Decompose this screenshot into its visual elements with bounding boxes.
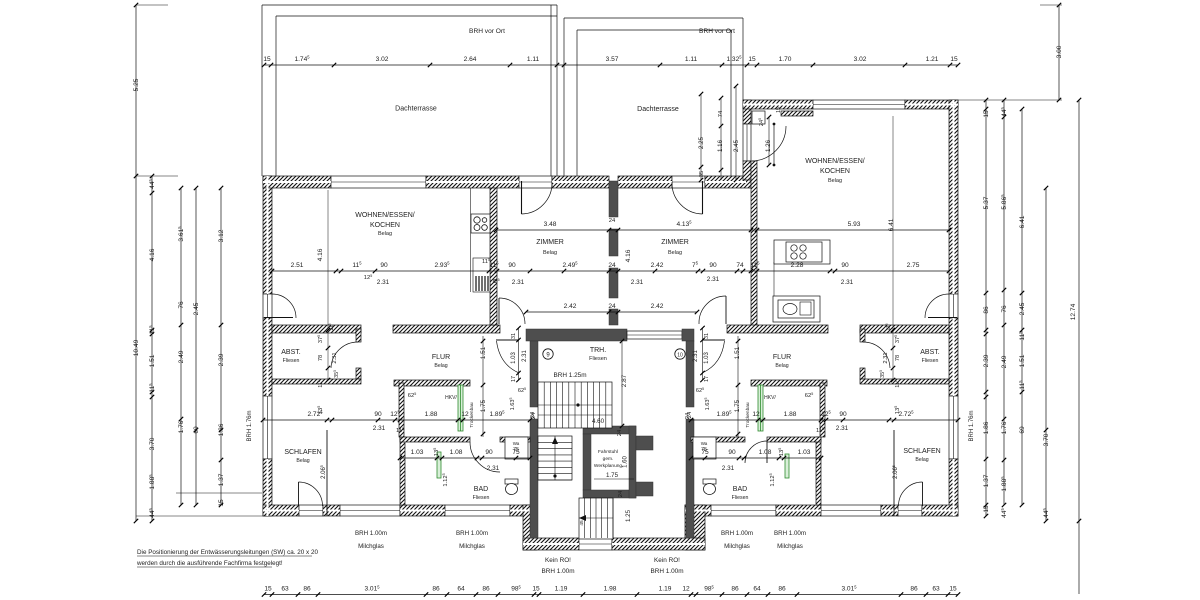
svg-text:2.31: 2.31 <box>512 279 525 286</box>
svg-text:2.75: 2.75 <box>907 262 920 269</box>
svg-text:64: 64 <box>457 586 465 593</box>
door arc BAD right <box>745 441 767 463</box>
Dachterrasse divider wall <box>551 5 564 176</box>
svg-text:FLUR: FLUR <box>432 354 450 361</box>
svg-text:12: 12 <box>461 411 469 418</box>
label Milchglas right 2 <box>774 530 806 550</box>
ABST right-apt west wall upper <box>860 329 865 342</box>
trhdoor vline right <box>700 326 704 382</box>
dimension chain zimmer lower <box>524 303 699 314</box>
svg-text:2.31: 2.31 <box>631 279 644 286</box>
ZIMMER divider wall seg2 <box>609 229 618 256</box>
sub labels 2.31 <box>364 274 854 286</box>
dimension chain flur left <box>261 410 532 423</box>
svg-text:2.31: 2.31 <box>841 279 854 286</box>
exterior wall step vertical upper <box>743 100 751 124</box>
wall corner detail right section <box>752 111 765 124</box>
svg-text:Werkplanung: Werkplanung <box>594 463 623 469</box>
svg-text:2.28: 2.28 <box>791 262 804 269</box>
svg-text:BRH vor Ort: BRH vor Ort <box>469 28 505 35</box>
dimension chain rooms upper <box>494 220 951 233</box>
label Kein RO right <box>650 557 683 575</box>
svg-text:3.12: 3.12 <box>218 229 225 242</box>
window bottom (BAD left, Milchglas) <box>445 505 510 516</box>
vdim right 1 <box>983 98 990 518</box>
dimension chain bad left <box>398 449 532 460</box>
exterior wall top seg1 <box>263 176 331 188</box>
svg-text:KOCHEN: KOCHEN <box>370 222 400 229</box>
svg-text:6.41: 6.41 <box>1019 215 1026 228</box>
ABST right wall upper <box>356 329 361 342</box>
dimension chain main interior <box>270 261 951 274</box>
elevator label <box>594 449 623 469</box>
dimension chain bad right <box>689 449 823 460</box>
svg-text:1.51: 1.51 <box>1019 354 1026 367</box>
flur right sublabels <box>816 406 901 434</box>
svg-text:1.03: 1.03 <box>411 449 424 456</box>
svg-text:90: 90 <box>709 262 717 269</box>
svg-text:BRH 1.00m: BRH 1.00m <box>774 530 806 537</box>
svg-text:BAD: BAD <box>733 486 747 493</box>
label BAD right <box>732 486 749 501</box>
svg-text:1.03: 1.03 <box>704 352 710 364</box>
vdim right 6 overall <box>1070 98 1081 594</box>
exterior wall bottom seg2 <box>400 505 445 516</box>
svg-text:15: 15 <box>218 499 225 507</box>
elevator shaft bottom wall <box>583 490 636 498</box>
svg-text:1.98: 1.98 <box>604 586 617 593</box>
svg-text:2.31: 2.31 <box>883 352 889 363</box>
elevator shaft west wall <box>583 434 591 490</box>
elevator shaft east wall <box>629 426 636 498</box>
washbasin left <box>505 437 528 459</box>
svg-text:Belag: Belag <box>915 457 928 463</box>
svg-text:15: 15 <box>983 505 990 513</box>
ABST dim chain left <box>317 323 340 387</box>
corridor wall left apt seg1 <box>272 325 361 333</box>
note line2 <box>136 560 283 567</box>
ABST right-apt west wall lower <box>860 368 865 379</box>
kitchen sink right <box>778 300 814 318</box>
svg-text:3.00: 3.00 <box>1056 45 1063 58</box>
label FLUR left <box>432 354 450 369</box>
extension line interior left <box>327 190 329 380</box>
heating manifold green left <box>458 385 463 431</box>
svg-text:15: 15 <box>264 586 272 593</box>
svg-text:WOHNEN/ESSEN/: WOHNEN/ESSEN/ <box>355 212 415 219</box>
exterior wall left upper <box>263 176 272 294</box>
svg-text:1.51: 1.51 <box>480 346 487 359</box>
svg-text:2.42: 2.42 <box>564 303 577 310</box>
svg-text:2.87: 2.87 <box>621 374 628 387</box>
svg-text:Belag: Belag <box>775 363 788 369</box>
SCHLAFEN west wall right apt <box>893 430 895 516</box>
svg-text:10.49: 10.49 <box>133 339 140 356</box>
stair flight lower <box>579 498 613 539</box>
WC right <box>703 479 716 495</box>
label ZIMMER right <box>661 239 689 256</box>
interior wall band right section <box>781 111 813 116</box>
svg-text:Belag: Belag <box>828 178 842 184</box>
door arc ABST left <box>331 342 358 368</box>
svg-text:Fliesen: Fliesen <box>283 358 300 364</box>
BAD west wall left apt <box>400 437 405 505</box>
svg-text:2.39: 2.39 <box>218 353 225 366</box>
svg-text:2.49: 2.49 <box>1001 355 1008 368</box>
svg-text:2.45: 2.45 <box>193 302 200 315</box>
dimension chain top <box>262 55 960 68</box>
note line1 <box>137 549 318 556</box>
svg-text:1.03: 1.03 <box>798 449 811 456</box>
dimension chain flur right <box>689 410 960 423</box>
SCHLAFEN east wall left apt <box>326 430 328 516</box>
svg-text:86: 86 <box>910 586 918 593</box>
stairwell east wall lower <box>686 419 694 538</box>
svg-text:15: 15 <box>983 110 990 118</box>
kitchen radiator left <box>473 258 490 292</box>
svg-text:1.86: 1.86 <box>983 421 990 434</box>
svg-text:1.51: 1.51 <box>149 354 156 367</box>
svg-text:2.39: 2.39 <box>983 354 990 367</box>
BAD east wall right apt <box>816 437 821 505</box>
door arc terrace ZIMMER right <box>672 181 703 214</box>
exterior wall top seg4 <box>618 176 672 188</box>
svg-text:4.60: 4.60 <box>592 418 605 425</box>
bad right sublabels <box>722 448 785 487</box>
window bottom (BAD right, Milchglas) <box>711 505 776 516</box>
door arc SCHLAFEN right <box>899 482 923 506</box>
svg-text:12.74: 12.74 <box>1070 303 1077 320</box>
svg-text:1.19: 1.19 <box>555 586 568 593</box>
svg-text:Milchglas: Milchglas <box>777 543 803 550</box>
vdim left 3 <box>177 186 185 507</box>
svg-text:SCHLAFEN: SCHLAFEN <box>903 448 940 455</box>
FLUR partition vertical right <box>820 383 825 437</box>
svg-text:Belag: Belag <box>296 458 309 464</box>
exterior wall right upper <box>949 100 958 294</box>
ABST right wall lower <box>356 368 361 379</box>
exterior wall step vertical lower <box>743 161 751 180</box>
svg-text:24: 24 <box>687 411 693 418</box>
svg-text:76: 76 <box>1001 305 1008 313</box>
window right-section top <box>813 100 905 109</box>
extension line top left <box>136 4 168 6</box>
svg-text:3.70: 3.70 <box>1043 433 1050 446</box>
exterior wall bottom seg4 <box>685 505 711 516</box>
svg-text:Wa: Wa <box>701 441 708 446</box>
svg-text:Fahrstuhl: Fahrstuhl <box>598 449 618 455</box>
svg-text:86: 86 <box>778 586 786 593</box>
stairwell west wall <box>530 341 538 407</box>
window top wall (WOHNEN left) <box>331 176 426 188</box>
svg-text:6.41: 6.41 <box>888 218 895 231</box>
extension line left building top <box>136 175 178 177</box>
svg-text:5.25: 5.25 <box>133 78 140 91</box>
interior vdim trh left <box>509 333 537 419</box>
svg-text:15: 15 <box>950 56 958 63</box>
vdim right 3 <box>1018 107 1026 507</box>
svg-text:1.75: 1.75 <box>480 399 487 412</box>
svg-text:2.49: 2.49 <box>178 350 185 363</box>
vdim right 2 <box>1000 98 1008 518</box>
svg-text:TRH.: TRH. <box>590 347 606 354</box>
svg-text:HKV/: HKV/ <box>445 395 457 401</box>
exterior wall right-section top seg1 <box>743 100 813 109</box>
BAD north wall right apt seg2 <box>691 437 745 442</box>
exterior wall bottom seg6b <box>922 505 958 516</box>
svg-text:1.08: 1.08 <box>450 449 463 456</box>
heating manifold green right <box>758 385 763 431</box>
stair dim 4.60 <box>538 415 612 526</box>
wall core line left wall <box>267 176 269 516</box>
svg-text:86: 86 <box>303 586 311 593</box>
vdim left 5 <box>218 186 225 507</box>
svg-text:78: 78 <box>318 355 324 361</box>
svg-text:Wa: Wa <box>513 441 520 446</box>
BAD north wall right apt seg1 <box>767 437 821 442</box>
terrace door opening right section <box>743 124 751 161</box>
svg-text:45: 45 <box>579 520 585 526</box>
entrance window bottom <box>579 538 612 550</box>
svg-text:4.16: 4.16 <box>149 248 156 261</box>
flur left sublabels <box>317 406 404 434</box>
svg-text:86: 86 <box>432 586 440 593</box>
svg-text:Trockenbau: Trockenbau <box>469 402 475 427</box>
svg-text:2.31: 2.31 <box>332 352 338 363</box>
svg-text:24: 24 <box>530 411 536 418</box>
Dachterrasse right outline outer <box>564 18 743 100</box>
svg-text:35: 35 <box>699 171 705 177</box>
svg-text:75: 75 <box>701 449 709 456</box>
svg-text:15: 15 <box>748 56 756 63</box>
exterior wall bottom seg1a <box>263 505 299 516</box>
svg-text:1.03: 1.03 <box>511 352 517 364</box>
stairwell west wall lower <box>530 419 538 538</box>
label ABST right <box>920 349 940 364</box>
svg-text:BRH 1.76m: BRH 1.76m <box>969 410 975 441</box>
entrance protrusion bottom seg1 <box>523 538 579 550</box>
exterior wall bottom seg5 <box>776 505 821 516</box>
label Milchglas left 2 <box>456 530 488 550</box>
svg-text:5.93: 5.93 <box>848 221 861 228</box>
svg-text:78: 78 <box>895 355 901 361</box>
svg-text:4.16: 4.16 <box>317 248 324 261</box>
svg-text:Belag: Belag <box>543 250 557 256</box>
svg-text:1.86: 1.86 <box>218 423 225 436</box>
FLUR partition horizontal right <box>751 380 827 386</box>
svg-text:Milchglas: Milchglas <box>459 543 485 550</box>
svg-text:86: 86 <box>983 306 990 314</box>
svg-text:2.31: 2.31 <box>693 350 699 362</box>
svg-text:2.45: 2.45 <box>1019 302 1026 315</box>
wall core line bottom wall <box>263 510 958 512</box>
elevator 24 labels <box>530 411 693 497</box>
FLUR partition vertical left <box>399 383 404 437</box>
label BAD left <box>473 486 490 501</box>
exterior wall left mid <box>263 318 272 396</box>
svg-text:SCHLAFEN: SCHLAFEN <box>284 449 321 456</box>
balcony door opening left wall <box>263 294 272 318</box>
vdim 5.25/10.49 <box>133 3 140 523</box>
svg-text:15: 15 <box>949 586 957 593</box>
washbasin right <box>693 437 716 459</box>
interior vdim trh right <box>685 333 711 419</box>
svg-text:86: 86 <box>731 586 739 593</box>
label FLUR right <box>773 354 791 369</box>
svg-text:BRH vor Ort: BRH vor Ort <box>699 28 735 35</box>
svg-text:90: 90 <box>485 449 493 456</box>
svg-text:15: 15 <box>532 586 540 593</box>
svg-text:12: 12 <box>752 411 760 418</box>
wall between ZIMMER right and WOHNEN right <box>751 161 757 329</box>
svg-text:KOCHEN: KOCHEN <box>820 168 850 175</box>
svg-text:FLUR: FLUR <box>773 354 791 361</box>
svg-text:1.125: 1.125 <box>769 473 776 486</box>
svg-text:90: 90 <box>839 411 847 418</box>
terrace door opening ZIMMER left <box>519 176 552 188</box>
interior vdim 1.51/1.75 right <box>734 346 741 412</box>
ABST dim chain right <box>879 323 901 387</box>
flur vline left <box>481 336 485 437</box>
exterior wall bottom seg6a <box>881 505 898 516</box>
label HKV right <box>745 395 776 428</box>
door arc ABST right <box>863 342 890 368</box>
svg-text:17: 17 <box>704 376 710 382</box>
ZIMMER divider wall seg1 <box>609 181 618 217</box>
ZIMMER divider wall seg3 <box>609 268 618 298</box>
door arc WOHNEN right <box>699 296 726 324</box>
exterior wall left lower <box>263 459 272 516</box>
svg-text:3.57: 3.57 <box>606 56 619 63</box>
svg-text:1.125: 1.125 <box>442 473 449 486</box>
svg-text:1.88: 1.88 <box>425 411 438 418</box>
svg-text:2.45: 2.45 <box>733 139 740 152</box>
svg-text:BRH 1.00m: BRH 1.00m <box>721 530 753 537</box>
svg-text:90: 90 <box>728 449 736 456</box>
wall core line protrusion <box>523 543 705 545</box>
door arc TRH right <box>703 340 726 373</box>
door number 9 <box>543 349 553 359</box>
svg-text:1.26: 1.26 <box>765 139 772 152</box>
door arc WOHNEN left <box>499 298 525 324</box>
svg-text:90: 90 <box>374 411 382 418</box>
svg-text:2.64: 2.64 <box>464 56 477 63</box>
svg-text:69: 69 <box>193 426 200 434</box>
entrance protrusion right wall <box>685 505 705 550</box>
terrace door opening ZIMMER right <box>672 176 705 188</box>
door dim 1.26 <box>773 123 776 167</box>
corridor wall right apt seg1 <box>727 325 828 333</box>
label Kein RO left <box>541 557 574 575</box>
wall core line right-section top <box>743 104 958 106</box>
svg-text:3.70: 3.70 <box>149 437 156 450</box>
svg-text:15: 15 <box>776 107 782 113</box>
kitchen stove left <box>471 188 490 292</box>
entrance protrusion left wall <box>523 505 537 550</box>
svg-text:64: 64 <box>753 586 761 593</box>
interior vdim 1.51/1.75 left <box>480 346 487 412</box>
window left wall (SCHLAFEN) <box>263 396 272 459</box>
door arc BAD left <box>470 442 500 472</box>
svg-text:10: 10 <box>677 353 683 359</box>
vdim left 4 <box>193 186 200 507</box>
svg-text:90: 90 <box>508 262 516 269</box>
svg-text:24: 24 <box>609 218 616 224</box>
Dachterrasse left outline inner <box>276 16 557 176</box>
svg-text:24: 24 <box>608 303 616 310</box>
svg-text:90: 90 <box>380 262 388 269</box>
stairwell east wall <box>686 341 694 407</box>
svg-text:2.31: 2.31 <box>836 425 849 432</box>
svg-text:BRH 1.00m: BRH 1.00m <box>650 568 683 575</box>
svg-text:74: 74 <box>736 262 744 269</box>
trhdoor vline left <box>516 326 520 382</box>
svg-text:ABST.: ABST. <box>281 349 301 356</box>
svg-text:2.31: 2.31 <box>487 465 500 472</box>
svg-text:1.70: 1.70 <box>779 56 792 63</box>
stairwell north wall filler <box>627 331 682 339</box>
SCHLAFEN left door threshold <box>299 505 323 516</box>
exterior wall bottom seg3 <box>510 505 537 516</box>
exterior wall right-section top seg2 <box>905 100 958 109</box>
green element BAD right <box>785 454 789 478</box>
svg-text:Fliesen: Fliesen <box>732 495 749 501</box>
label SCHLAFEN right <box>903 448 940 463</box>
svg-text:69: 69 <box>1019 426 1026 434</box>
exterior wall right lower <box>949 459 958 516</box>
svg-text:1.19: 1.19 <box>659 586 672 593</box>
svg-text:24: 24 <box>618 490 624 497</box>
elevator shaft east block lower <box>636 482 653 496</box>
svg-text:2.31: 2.31 <box>373 425 386 432</box>
vdim right 4 <box>1042 186 1050 523</box>
svg-text:24: 24 <box>608 262 616 269</box>
exterior wall bottom seg1b <box>323 505 340 516</box>
svg-text:BRH 1.00m: BRH 1.00m <box>541 568 574 575</box>
svg-text:ABST.: ABST. <box>920 349 940 356</box>
svg-text:BAD: BAD <box>474 486 488 493</box>
svg-text:2.31: 2.31 <box>522 350 528 362</box>
svg-text:2.31: 2.31 <box>377 279 390 286</box>
ZIMMER divider wall seg4 <box>609 309 618 325</box>
svg-text:Kein RO!: Kein RO! <box>545 557 571 564</box>
FLUR partition horizontal left <box>394 380 470 386</box>
svg-text:2.42: 2.42 <box>651 303 664 310</box>
stair flight west <box>538 436 572 480</box>
extension line interior right <box>892 116 894 380</box>
Dachterrasse right outline inner <box>577 30 731 176</box>
door arc TRH left <box>496 340 519 373</box>
svg-text:1.25: 1.25 <box>625 509 632 522</box>
window bottom (SCHLAFEN right) <box>821 505 881 516</box>
svg-text:2.42: 2.42 <box>651 262 664 269</box>
svg-text:Belag: Belag <box>668 250 682 256</box>
corridor wall right apt seg2 <box>860 325 949 333</box>
flur vline right <box>736 336 740 437</box>
exterior wall top seg5 <box>705 176 751 188</box>
svg-text:Dachterrasse: Dachterrasse <box>637 106 679 113</box>
svg-text:31: 31 <box>511 333 517 339</box>
svg-text:Belag: Belag <box>434 363 447 369</box>
svg-text:ZIMMER: ZIMMER <box>661 239 689 246</box>
BAD north wall left apt seg2 <box>500 437 530 442</box>
green element BAD left <box>437 452 441 478</box>
svg-text:1.76: 1.76 <box>1001 421 1008 434</box>
svg-text:BRH 1.00m: BRH 1.00m <box>456 530 488 537</box>
label TRH <box>589 347 607 362</box>
label Milchglas left 1 <box>355 530 387 550</box>
door arc SCHLAFEN left <box>299 482 323 506</box>
